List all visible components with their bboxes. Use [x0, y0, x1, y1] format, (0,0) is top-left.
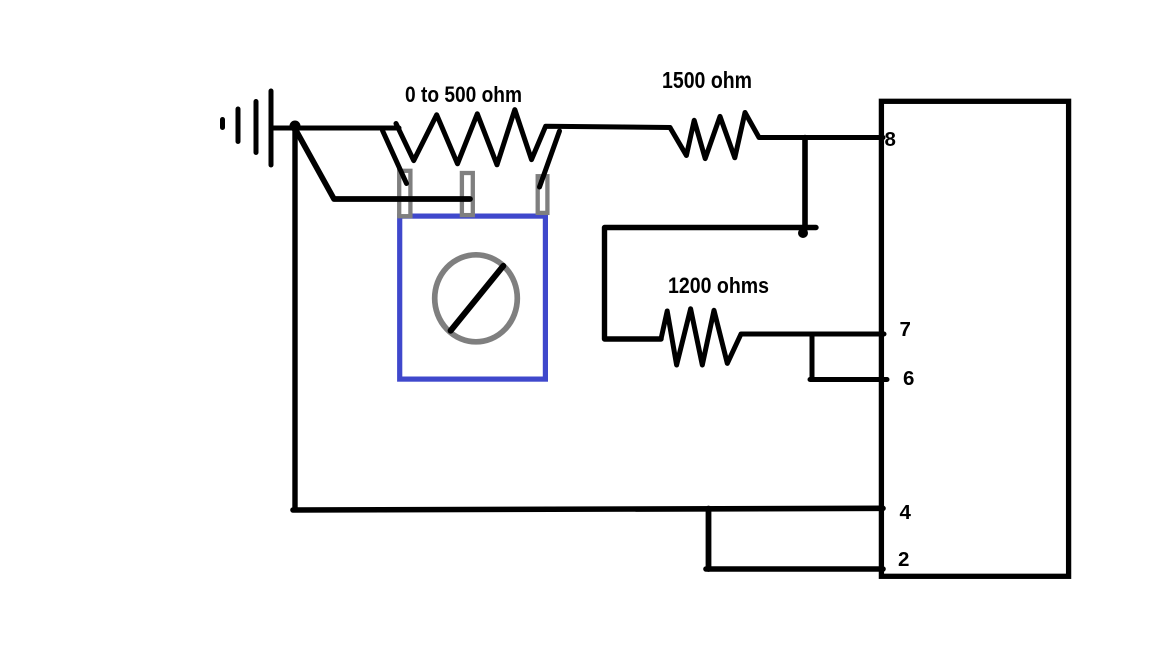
svg-text:4: 4	[900, 501, 912, 524]
wire into pin 2	[706, 566, 883, 572]
wire left vertical down from junction	[292, 128, 297, 509]
wire branch vertical from pin 8 net	[802, 138, 808, 230]
resistor R3 1200 ohms zigzag and wire to pin 7	[661, 309, 884, 365]
meter M1 terminal 3	[538, 176, 548, 213]
wire battery to potentiometer	[271, 126, 399, 131]
wire branch vertical pin4 to pin2	[706, 509, 712, 570]
meter M1 terminal 2	[462, 173, 473, 215]
meter M1 blue body	[400, 216, 546, 379]
potentiometer R1 left lead	[383, 131, 407, 184]
resistor R2 1500 ohm zigzag and wire to pin 8	[670, 113, 883, 159]
svg-text:8: 8	[885, 128, 896, 151]
wire horizontal upper of feedback loop	[605, 228, 817, 340]
meter M1 needle	[451, 266, 504, 331]
potentiometer R1 0 to 500 ohm zigzag	[396, 110, 670, 165]
node junction at battery output	[292, 123, 298, 129]
svg-text:1500 ohm: 1500 ohm	[662, 67, 752, 93]
wire branch vertical pin7 to pin6	[810, 334, 815, 380]
potentiometer R1 right lead	[540, 131, 560, 187]
svg-text:7: 7	[900, 318, 911, 341]
svg-text:6: 6	[903, 367, 914, 390]
IC U1 body	[881, 101, 1068, 576]
meter M1 terminal 1	[399, 171, 410, 216]
battery B1	[223, 91, 272, 165]
svg-text:0 to 500 ohm: 0 to 500 ohm	[405, 82, 522, 107]
meter M1 dial circle	[435, 255, 518, 342]
svg-text:2: 2	[898, 548, 909, 571]
svg-text:1200 ohms: 1200 ohms	[668, 273, 769, 298]
wire into pin 6	[810, 377, 887, 382]
wire bottom horizontal to pin 4	[293, 508, 883, 510]
wire wiper arm diagonal to middle terminal	[296, 130, 471, 200]
node junction dot below corner	[801, 231, 806, 236]
